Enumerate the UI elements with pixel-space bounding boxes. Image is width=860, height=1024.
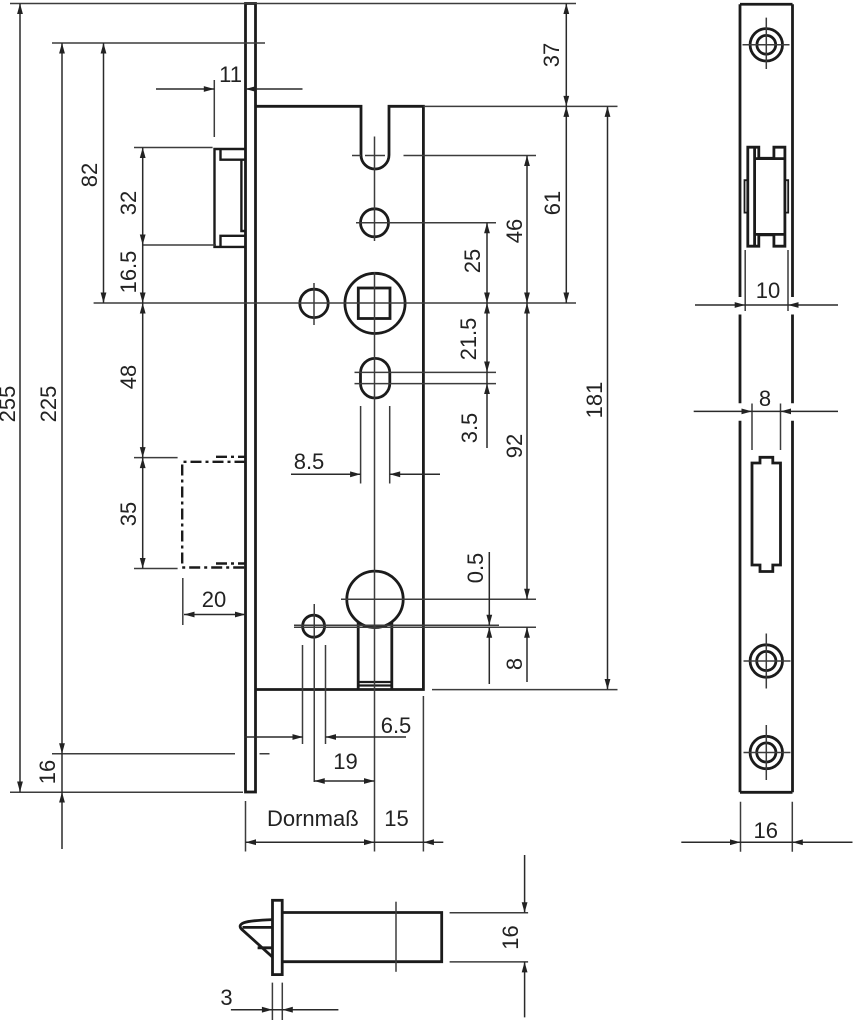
svg-text:16: 16 (754, 818, 778, 843)
dim 225 (61, 43, 63, 754)
svg-text:19: 19 (333, 749, 357, 774)
cylinder slot (752, 457, 781, 571)
screw hole centerline crosses (743, 18, 791, 780)
svg-text:35: 35 (116, 502, 141, 526)
keyway sides (358, 622, 392, 690)
dim 6.5 (245, 736, 407, 738)
svg-text:6.5: 6.5 (381, 713, 412, 738)
middle screw hole (750, 645, 782, 677)
svg-text:37: 37 (539, 43, 564, 67)
follower pocket (32) on faceplate back (215, 149, 246, 247)
svg-text:61: 61 (540, 191, 565, 215)
16 latch (522, 902, 528, 913)
top reference line y=3.5 (10, 3, 576, 5)
255 bottom extension (10, 791, 243, 793)
16.5 (140, 293, 146, 304)
16 plate (730, 839, 741, 845)
16 left (59, 792, 65, 803)
dim 8 plate (694, 410, 838, 412)
latch 16 extensions (450, 913, 528, 962)
25 (484, 223, 490, 234)
oval width extensions (361, 406, 390, 484)
oval hole (361, 358, 390, 398)
latch nose wedge (240, 920, 272, 957)
svg-text:20: 20 (202, 587, 226, 612)
spindle square (358, 288, 390, 319)
svg-text:255: 255 (0, 386, 20, 423)
case right edge extension down (422, 696, 424, 852)
0.5 (486, 615, 492, 626)
3.5 (484, 384, 490, 395)
19 (314, 778, 325, 784)
lock case outline with top latch slot (256, 106, 424, 689)
dim 181 (607, 106, 609, 689)
82 (101, 43, 107, 54)
dim 32 / 16.5 / 48 / 35 (142, 148, 144, 569)
latch nose inner lines (243, 927, 273, 947)
latch slot bottom line y=155.5 (352, 155, 536, 157)
20 (184, 612, 195, 618)
plate 16 extensions (741, 802, 793, 852)
11 extension (213, 80, 215, 137)
21.5 (484, 303, 490, 314)
32 (140, 148, 146, 159)
svg-text:225: 225 (36, 386, 61, 423)
pocket bottom extension (143, 244, 216, 246)
dim 8.5 (291, 473, 440, 475)
svg-text:16: 16 (498, 925, 523, 949)
faceplate side view (246, 4, 256, 793)
svg-text:Dornmaß: Dornmaß (267, 806, 359, 831)
oval reference lines (355, 372, 497, 383)
plate width 10 extensions (745, 250, 788, 311)
bottom screw hole (750, 736, 782, 768)
top screw hole (750, 29, 782, 61)
keyway bottom bar (358, 682, 392, 686)
20 extension (182, 578, 184, 625)
48 (140, 303, 146, 314)
181 (605, 106, 611, 117)
Dornmass (246, 839, 257, 845)
svg-text:16.5: 16.5 (116, 251, 141, 294)
vertical centerline of case holes (374, 137, 376, 852)
svg-text:3.5: 3.5 (457, 413, 482, 444)
hidden pocket (35x20) dash-dot (182, 457, 245, 568)
8.5 (350, 471, 361, 477)
reference line y=43 (52, 42, 265, 44)
pocket top extension (134, 147, 213, 149)
10 plate (735, 302, 746, 308)
8 plate (742, 409, 753, 415)
dim 46 / 25 / 21.5 / 3.5 / 92 (487, 156, 527, 600)
lower hole centerline (294, 626, 536, 628)
svg-text:8.5: 8.5 (294, 449, 325, 474)
svg-text:32: 32 (116, 191, 141, 215)
dim 16 plate (681, 841, 852, 843)
lower hole vertical extensions (303, 604, 326, 782)
225 (59, 43, 65, 54)
255 (17, 4, 23, 15)
dim 37 / 61 (565, 4, 567, 304)
dim 10 plate (695, 304, 838, 306)
92 (524, 303, 530, 314)
case bottom extension right (432, 689, 618, 691)
15 (423, 839, 434, 845)
latch opening outline (748, 147, 785, 246)
svg-text:82: 82 (77, 163, 102, 187)
svg-text:92: 92 (502, 434, 527, 458)
key hole centerline (341, 598, 536, 600)
dim 16 latch (524, 855, 526, 1017)
dim 3 latch (231, 1009, 339, 1011)
svg-text:16: 16 (35, 760, 60, 784)
lower small hole (303, 615, 325, 637)
dim 20 (184, 614, 246, 616)
dim 19 (314, 780, 374, 782)
svg-text:48: 48 (116, 365, 141, 389)
svg-text:0.5: 0.5 (463, 553, 488, 584)
dim 11 (156, 88, 303, 90)
svg-text:8: 8 (502, 658, 527, 670)
225/16 extension line (52, 753, 270, 755)
svg-text:25: 25 (460, 249, 485, 273)
dim 82 (103, 43, 105, 303)
latch 3 extensions (272, 983, 282, 1020)
svg-text:181: 181 (582, 382, 607, 419)
61 (563, 106, 569, 117)
faceplate front outline (edges broken at dimension rows) (740, 4, 793, 792)
dim 16 lower left tail (61, 754, 63, 849)
mid hole vertical centerline (313, 283, 315, 325)
37 (563, 4, 569, 15)
dim 0.5 (488, 552, 490, 684)
faceplate cross-section (273, 900, 283, 974)
mid small hole (300, 289, 328, 317)
dim 8 case (526, 627, 528, 682)
6.5 (293, 734, 304, 740)
latch section mark (395, 902, 397, 972)
latch bolt front face lines (755, 147, 785, 246)
svg-text:3: 3 (220, 985, 232, 1010)
svg-text:15: 15 (384, 806, 408, 831)
spindle hub circle (345, 273, 405, 333)
case top extension to right (423, 105, 617, 107)
dim 255 (19, 4, 21, 793)
key cylinder circle (347, 571, 403, 627)
svg-text:10: 10 (756, 278, 780, 303)
svg-text:46: 46 (502, 219, 527, 243)
upper hole centerline (356, 222, 496, 224)
pocket2 extensions (134, 458, 178, 569)
dim Dornmass / 15 (246, 841, 444, 843)
svg-text:11: 11 (219, 62, 242, 87)
35 (140, 458, 146, 469)
svg-text:8: 8 (759, 386, 771, 411)
8 case (524, 627, 530, 638)
latch side flanges (745, 180, 748, 212)
spindle centerline (94, 302, 576, 304)
svg-text:21.5: 21.5 (456, 318, 481, 361)
latch bolt body (282, 913, 442, 962)
faceplate left edge extension down (245, 801, 247, 852)
11 (204, 86, 215, 92)
46 (524, 156, 530, 167)
upper hole (361, 209, 389, 237)
slot width 8 extensions (752, 404, 781, 451)
lever line (294, 624, 499, 626)
3 latch (262, 1007, 273, 1013)
